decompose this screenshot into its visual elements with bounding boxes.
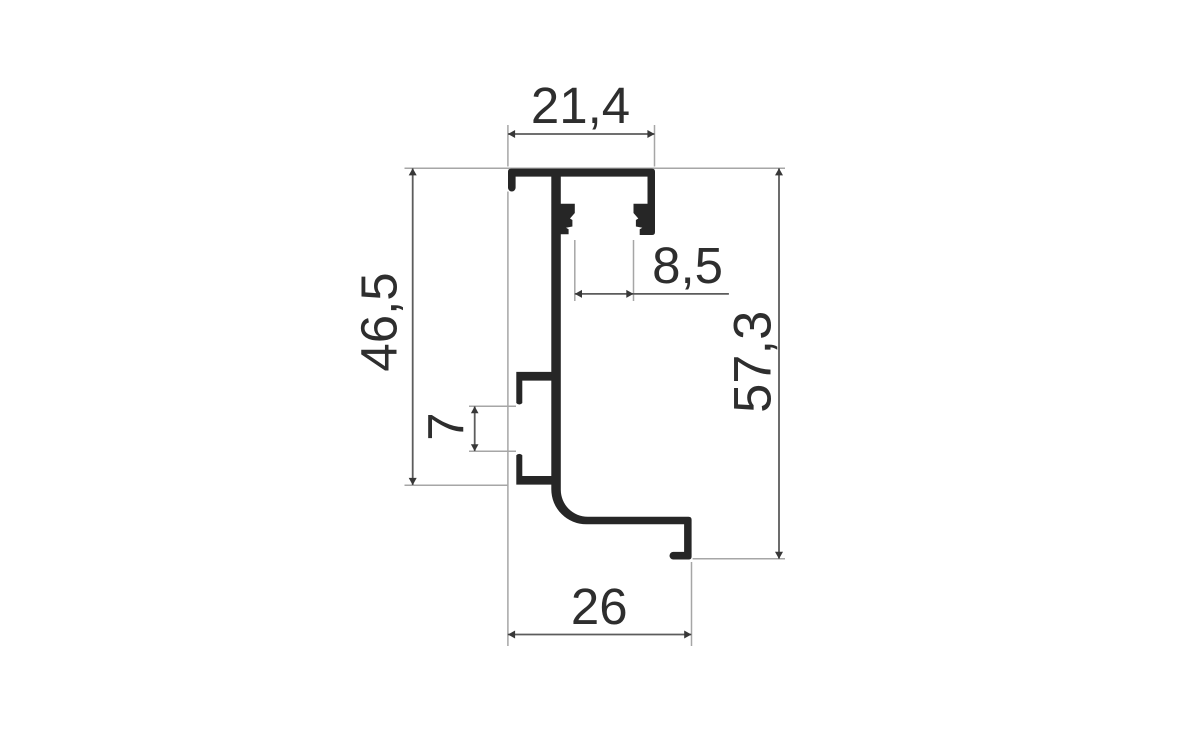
svg-text:7: 7 — [418, 412, 475, 440]
dimension line 8,5 — [575, 293, 729, 295]
svg-text:8,5: 8,5 — [652, 237, 723, 294]
svg-text:57,3: 57,3 — [724, 311, 783, 413]
extension line: left vertical upper (21,4 left) — [507, 125, 509, 167]
extension line: left vertical long (26 left) — [507, 192, 509, 647]
extension line: 21,4 right vertical — [654, 125, 656, 167]
extension line: 7 bottom horizontal — [469, 450, 516, 452]
dimension line 7 — [474, 406, 476, 451]
svg-text:46,5: 46,5 — [351, 272, 408, 371]
dimension line 46,5 — [412, 168, 414, 485]
dimension line 21,4 — [508, 133, 655, 135]
dimension line 26 — [508, 634, 692, 636]
extension line: top horizontal shared (46,5 / 57,3) — [405, 167, 786, 169]
extension line: 26 right vertical — [691, 562, 693, 646]
svg-text:21,4: 21,4 — [531, 77, 630, 134]
aluminium profile cross-section outline — [508, 169, 692, 560]
extension line: 46,5 bottom horizontal — [405, 484, 508, 486]
svg-text:26: 26 — [571, 578, 628, 635]
extension line: 7 top horizontal — [469, 405, 516, 407]
dimension line 57,3 — [778, 168, 780, 559]
extension line: 8,5 left vertical — [574, 240, 576, 301]
extension line: 57,3 bottom horizontal — [693, 558, 785, 560]
extension line: 8,5 right vertical — [633, 240, 635, 301]
